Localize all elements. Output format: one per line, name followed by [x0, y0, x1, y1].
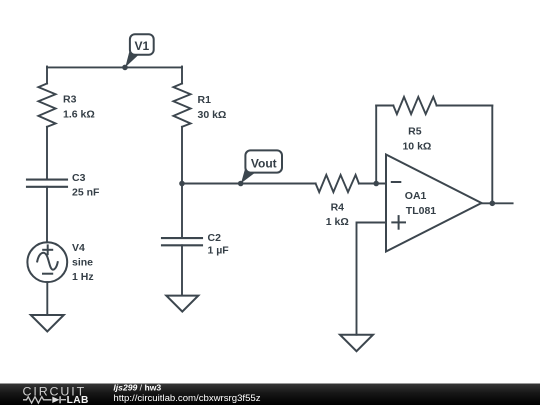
wire Vout net horizontal — [182, 183, 316, 185]
svg-text:C3: C3 — [72, 172, 86, 184]
ground (V4) — [31, 315, 64, 332]
capacitor C2 — [162, 238, 202, 245]
logo diode arrow — [52, 397, 59, 403]
logo resistor zigzag — [23, 397, 52, 403]
wire V4 to ground — [46, 282, 48, 315]
svg-text:http://circuitlab.com/cbxwrsrg: http://circuitlab.com/cbxwrsrg3f55z — [113, 393, 260, 404]
svg-text:10 kΩ: 10 kΩ — [402, 141, 431, 153]
svg-text:ljs299 / hw3: ljs299 / hw3 — [113, 383, 161, 393]
source V4 — [27, 242, 67, 282]
capacitor C3 — [27, 180, 67, 187]
svg-text:R3: R3 — [63, 94, 77, 106]
svg-text:30 kΩ: 30 kΩ — [198, 109, 227, 121]
resistor R4 — [316, 175, 359, 192]
svg-text:TL081: TL081 — [406, 205, 437, 217]
ground (C2) — [166, 296, 198, 312]
svg-text:R5: R5 — [408, 126, 422, 138]
node Vout flag dot — [238, 181, 244, 187]
node inverting input dot — [373, 181, 379, 187]
op-amp OA1 triangle — [386, 155, 482, 252]
flag V1 — [125, 34, 153, 67]
svg-text:R4: R4 — [331, 202, 345, 214]
wire R4 to op-amp — [359, 183, 386, 185]
svg-text:OA1: OA1 — [405, 190, 427, 202]
resistor R1 — [173, 84, 190, 127]
svg-text:LAB: LAB — [67, 395, 89, 405]
wire op-amp output — [482, 202, 513, 204]
svg-text:Vout: Vout — [251, 156, 277, 170]
ground (op-amp +) — [340, 335, 373, 352]
op-amp minus pin mark — [392, 181, 401, 183]
wire C2 branch — [181, 184, 183, 239]
svg-text:1 Hz: 1 Hz — [72, 271, 94, 283]
svg-text:V4: V4 — [72, 242, 85, 254]
resistor R3 — [38, 84, 55, 127]
svg-text:R1: R1 — [198, 94, 212, 106]
wire R3 to C3 — [46, 127, 48, 180]
wire R5 to right corner — [437, 105, 493, 107]
flag Vout — [241, 150, 282, 183]
wire left column top — [46, 67, 48, 84]
node output dot — [490, 201, 496, 207]
resistor R5 — [393, 97, 436, 114]
wire C2 to ground — [181, 245, 183, 294]
wire middle column top — [181, 67, 183, 84]
op-amp plus pin mark — [392, 216, 405, 229]
wire top horizontal V1 net — [47, 66, 182, 68]
wire feedback top left — [376, 105, 393, 107]
svg-text:V1: V1 — [134, 39, 149, 53]
svg-text:sine: sine — [72, 257, 93, 269]
svg-text:1 kΩ: 1 kΩ — [326, 216, 349, 228]
svg-text:1.6 kΩ: 1.6 kΩ — [63, 109, 95, 121]
wire non-inverting input — [357, 223, 387, 335]
svg-text:C2: C2 — [208, 232, 222, 244]
wire R1 to node — [181, 127, 183, 184]
wire C3 to V4 — [46, 187, 48, 243]
node V1 dot — [122, 65, 128, 71]
wire feedback vertical left — [375, 106, 377, 184]
svg-text:25 nF: 25 nF — [72, 187, 100, 199]
node Vout left dot — [179, 181, 185, 187]
wire feedback vertical right — [491, 106, 493, 204]
svg-text:1 µF: 1 µF — [208, 245, 230, 257]
